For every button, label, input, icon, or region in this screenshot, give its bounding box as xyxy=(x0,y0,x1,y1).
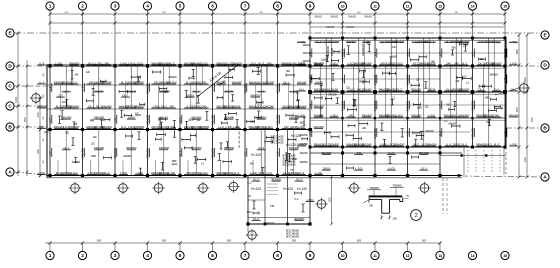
svg-text:240x500: 240x500 xyxy=(451,40,462,44)
svg-text:LL-3: LL-3 xyxy=(429,40,435,44)
svg-text:BLTC 240x300: BLTC 240x300 xyxy=(283,165,297,167)
svg-text:KL-2: KL-2 xyxy=(494,142,500,146)
secondary axis target at 233.5,186.5 xyxy=(227,180,240,193)
svg-text:240x300: 240x300 xyxy=(303,52,312,55)
svg-text:240: 240 xyxy=(267,61,272,65)
svg-text:1800: 1800 xyxy=(292,158,298,161)
svg-text:300x500: 300x500 xyxy=(61,80,72,84)
svg-text:240 240: 240 240 xyxy=(94,125,104,129)
svg-text:1800: 1800 xyxy=(91,155,97,158)
svg-text:300x500: 300x500 xyxy=(411,87,422,91)
svg-text:240x500: 240x500 xyxy=(340,48,344,59)
columns right block mid row xyxy=(308,90,507,94)
beam row y85 left block xyxy=(47,85,506,94)
svg-text:240x500: 240x500 xyxy=(191,61,202,65)
axis E bubble left y=33 xyxy=(6,29,14,37)
bottom grid bubble 5 xyxy=(176,243,184,260)
bottom grid bubble 10 xyxy=(338,243,346,260)
grid axis 9 bubble xyxy=(306,2,314,38)
secondary axis target at 36,98 xyxy=(30,92,43,105)
extension mid row xyxy=(310,163,440,165)
svg-text:2@18: 2@18 xyxy=(323,87,331,91)
svg-text:KL-2: KL-2 xyxy=(104,171,110,175)
svg-text:L-5(1): L-5(1) xyxy=(298,113,305,117)
svg-text:1800: 1800 xyxy=(172,160,178,163)
svg-text:KL-2: KL-2 xyxy=(253,178,259,182)
svg-text:2@18: 2@18 xyxy=(187,94,195,98)
svg-text:H=120: H=120 xyxy=(251,153,261,157)
svg-text:240x400: 240x400 xyxy=(405,100,409,111)
secondary axis target at 321.5,204 xyxy=(315,198,328,211)
svg-text:KL-2: KL-2 xyxy=(169,61,175,65)
svg-text:240x300: 240x300 xyxy=(300,143,309,146)
svg-text:L-1(2): L-1(2) xyxy=(396,61,403,65)
svg-text:2@18: 2@18 xyxy=(380,61,388,65)
secondary axis target at 158.5,188 xyxy=(152,182,165,195)
grid axis 2 bubble xyxy=(78,2,86,66)
detail section 2 T-beam xyxy=(363,195,403,213)
bottom grid bubble 9 xyxy=(306,243,314,260)
svg-text:2@18: 2@18 xyxy=(290,125,298,129)
svg-text:L-7: L-7 xyxy=(48,151,52,155)
svg-text:LL-1: LL-1 xyxy=(178,117,182,123)
svg-text:240 240: 240 240 xyxy=(94,89,104,93)
svg-text:240x300: 240x300 xyxy=(314,16,323,19)
svg-text:L-2: L-2 xyxy=(80,86,84,90)
svg-text:QL-1: QL-1 xyxy=(258,171,264,175)
svg-text:240: 240 xyxy=(479,40,484,44)
grid axis 4 bubble xyxy=(143,2,151,66)
svg-text:1800: 1800 xyxy=(417,106,423,109)
columns on axis D xyxy=(48,64,506,67)
svg-text:240: 240 xyxy=(104,61,109,65)
svg-text:L-5(1): L-5(1) xyxy=(510,61,517,65)
svg-text:240x300: 240x300 xyxy=(94,116,105,120)
axis C bubble left y=86 xyxy=(6,82,14,90)
bottom grid bubble 6 xyxy=(208,243,216,260)
bottom grid bubble 15 xyxy=(501,251,509,259)
svg-text:2@18: 2@18 xyxy=(330,87,338,91)
bottom dimension line xyxy=(45,241,442,245)
svg-text:KL-2: KL-2 xyxy=(316,40,322,44)
column line grid 15 xyxy=(504,38,506,147)
bottom grid bubble 14 xyxy=(468,251,476,259)
svg-text:700(300): 700(300) xyxy=(392,184,401,188)
svg-text:LL-3: LL-3 xyxy=(121,125,127,129)
svg-text:L-1(2): L-1(2) xyxy=(233,125,240,129)
svg-text:240x300: 240x300 xyxy=(346,26,355,29)
svg-text:240 240: 240 240 xyxy=(159,125,169,129)
svg-text:H=120: H=120 xyxy=(283,187,293,191)
svg-text:L-5(1): L-5(1) xyxy=(120,171,127,175)
svg-text:L-1(2): L-1(2) xyxy=(388,142,395,146)
grid axis 13 bubble xyxy=(436,2,444,38)
column line grid 11 xyxy=(374,38,376,176)
svg-text:L-5(1): L-5(1) xyxy=(298,125,305,129)
svg-text:LL-3: LL-3 xyxy=(226,61,232,65)
column line grid 10 xyxy=(342,38,344,176)
svg-text:KL-2: KL-2 xyxy=(396,87,402,91)
svg-text:L-5(1): L-5(1) xyxy=(290,61,297,65)
svg-text:L-7: L-7 xyxy=(503,131,507,135)
top dimension line 2 xyxy=(49,22,507,25)
svg-text:L-7: L-7 xyxy=(243,151,247,155)
svg-text:300x500: 300x500 xyxy=(484,113,495,117)
top dimension line 1 xyxy=(49,13,507,16)
column line grid 8 xyxy=(277,66,279,176)
svg-text:L-1(2): L-1(2) xyxy=(136,61,143,65)
svg-text:240x300: 240x300 xyxy=(300,152,309,155)
beam labels right block rows xyxy=(296,40,519,147)
svg-text:240 240: 240 240 xyxy=(224,171,234,175)
svg-text:300x500: 300x500 xyxy=(271,178,282,182)
left wall side dim texts xyxy=(43,72,45,163)
svg-text:240x400: 240x400 xyxy=(361,113,372,117)
svg-text:13: 13 xyxy=(438,254,442,258)
svg-text:240: 240 xyxy=(202,80,207,84)
svg-text:LL-3: LL-3 xyxy=(299,171,305,175)
svg-text:L-5(1): L-5(1) xyxy=(153,104,160,108)
svg-text:240x300: 240x300 xyxy=(123,155,132,158)
svg-text:BLTC 240x300: BLTC 240x300 xyxy=(283,162,297,164)
svg-text:QL-1: QL-1 xyxy=(122,94,128,98)
svg-text:300x500: 300x500 xyxy=(69,61,80,65)
svg-text:QL-1: QL-1 xyxy=(461,142,467,146)
svg-text:240x400: 240x400 xyxy=(94,146,105,150)
bottom grid bubble 11 xyxy=(371,243,379,260)
svg-text:240x300: 240x300 xyxy=(303,60,312,63)
svg-text:240x500: 240x500 xyxy=(354,142,365,146)
svg-text:2@18: 2@18 xyxy=(428,87,436,91)
svg-text:240x500: 240x500 xyxy=(313,113,324,117)
svg-text:LL-3: LL-3 xyxy=(39,80,45,84)
axis B bubble left y=127 xyxy=(6,123,14,131)
svg-text:L-5(1): L-5(1) xyxy=(510,142,517,146)
svg-text:1800: 1800 xyxy=(392,56,398,59)
svg-text:LL-3: LL-3 xyxy=(446,142,452,146)
svg-text:LL-3: LL-3 xyxy=(64,89,70,93)
svg-text:L-1(2): L-1(2) xyxy=(63,125,70,129)
svg-text:3600: 3600 xyxy=(454,12,458,14)
secondary beams left block upper xyxy=(61,66,294,109)
svg-text:240x400: 240x400 xyxy=(210,115,214,126)
column line grid 4 xyxy=(147,66,149,176)
secondary axis target at 354,188 xyxy=(348,182,361,195)
svg-text:240: 240 xyxy=(494,113,499,117)
svg-text:13: 13 xyxy=(438,5,442,9)
svg-text:240x300 240: 240x300 240 xyxy=(362,43,365,55)
svg-text:240x300: 240x300 xyxy=(145,83,149,94)
svg-text:240x300: 240x300 xyxy=(266,222,275,225)
svg-text:240: 240 xyxy=(284,125,289,129)
svg-text:240x300: 240x300 xyxy=(364,16,373,19)
secondary axis target at 203,188 xyxy=(197,182,210,195)
svg-text:QL-1: QL-1 xyxy=(421,167,427,171)
svg-text:240x300: 240x300 xyxy=(145,148,149,159)
micro text blocks near stairwell xyxy=(239,130,300,238)
column line grid 2 xyxy=(82,66,84,176)
svg-text:240x300: 240x300 xyxy=(340,100,344,111)
svg-text:BLTC 240x300: BLTC 240x300 xyxy=(286,231,300,233)
svg-text:240x400: 240x400 xyxy=(313,104,324,108)
columns on axis B xyxy=(48,128,311,131)
svg-text:2: 2 xyxy=(415,213,418,219)
building left edge wall xyxy=(46,64,48,178)
grid axis 8 bubble xyxy=(273,2,281,66)
secondary axis target at 123,188 xyxy=(117,182,130,195)
svg-text:240x500: 240x500 xyxy=(191,80,202,84)
secondary axis target at 524,88 xyxy=(518,82,531,95)
svg-text:12: 12 xyxy=(406,5,410,9)
axis C leader dashes xyxy=(15,86,48,106)
svg-text:L-1(2): L-1(2) xyxy=(201,171,208,175)
svg-text:2@14: 2@14 xyxy=(164,90,171,93)
svg-text:240x300: 240x300 xyxy=(331,47,334,56)
svg-text:BLTC 240x300: BLTC 240x300 xyxy=(286,237,300,239)
bottom grid bubble 13 xyxy=(436,243,444,260)
svg-text:L-5(1): L-5(1) xyxy=(128,125,135,129)
beam row axis C left block xyxy=(47,109,506,120)
column line grid 6 xyxy=(212,66,214,176)
svg-text:L-1(2): L-1(2) xyxy=(136,171,143,175)
svg-text:QL-1: QL-1 xyxy=(494,87,500,91)
grid axis 14 bubble xyxy=(468,2,476,38)
axis A bubble right xyxy=(541,173,549,181)
svg-text:3600: 3600 xyxy=(357,12,361,14)
svg-text:240x300: 240x300 xyxy=(330,16,339,19)
svg-text:240x300: 240x300 xyxy=(126,80,137,84)
column line grid 9 xyxy=(309,38,311,224)
svg-text:LL-3: LL-3 xyxy=(259,80,265,84)
svg-text:240x400: 240x400 xyxy=(373,128,377,139)
svg-text:240: 240 xyxy=(357,87,362,91)
diagonal leader right block xyxy=(495,88,519,95)
axis E bubble right xyxy=(541,31,549,39)
svg-text:L-7: L-7 xyxy=(470,52,474,56)
svg-text:240x500: 240x500 xyxy=(411,113,422,117)
stairwell protrusion outline xyxy=(246,130,332,226)
bottom detail marker xyxy=(247,226,249,233)
svg-text:240x500: 240x500 xyxy=(126,104,137,108)
svg-text:240 240: 240 240 xyxy=(224,89,234,93)
grid9 text ladder xyxy=(300,43,365,164)
svg-text:240x500: 240x500 xyxy=(113,148,117,159)
svg-text:240: 240 xyxy=(154,80,159,84)
grid axis 1 bubble xyxy=(46,2,54,66)
svg-text:240x300: 240x300 xyxy=(484,61,495,65)
svg-text:240x400: 240x400 xyxy=(275,115,279,126)
protrusion beam labels xyxy=(252,178,315,222)
svg-text:L-5(1): L-5(1) xyxy=(510,40,517,44)
svg-text:QL-1: QL-1 xyxy=(88,104,94,108)
svg-text:QL-1: QL-1 xyxy=(96,104,102,108)
svg-text:300x500: 300x500 xyxy=(191,104,202,108)
svg-text:L-7: L-7 xyxy=(308,131,312,135)
svg-text:L-5(1): L-5(1) xyxy=(428,113,435,117)
svg-text:14: 14 xyxy=(471,5,475,9)
svg-text:2@18: 2@18 xyxy=(233,104,241,108)
svg-text:240x300: 240x300 xyxy=(313,125,324,129)
svg-text:L-1(2): L-1(2) xyxy=(201,61,208,65)
axis A leader dashes xyxy=(15,172,541,177)
svg-text:L-5(1): L-5(1) xyxy=(380,142,387,146)
svg-text:QL-1: QL-1 xyxy=(283,80,289,84)
svg-text:240x300: 240x300 xyxy=(61,116,72,120)
bottom grid bubble 2 xyxy=(78,243,86,260)
svg-text:300x500: 300x500 xyxy=(224,146,235,150)
svg-text:3600: 3600 xyxy=(259,12,263,14)
svg-text:240x300: 240x300 xyxy=(348,16,357,19)
svg-text:KL-2: KL-2 xyxy=(253,217,259,221)
axis B leader dashes xyxy=(15,127,541,128)
svg-text:240x300: 240x300 xyxy=(386,87,397,91)
stair flight lines in protrusion xyxy=(267,184,279,194)
svg-text:240x500: 240x500 xyxy=(36,104,47,108)
svg-text:L-1(2): L-1(2) xyxy=(168,171,175,175)
column line grid 12 xyxy=(407,38,409,176)
svg-text:14: 14 xyxy=(471,254,475,258)
svg-text:L-5(1): L-5(1) xyxy=(120,61,127,65)
beam labels left block rows xyxy=(36,61,324,174)
svg-text:240 240: 240 240 xyxy=(216,80,226,84)
svg-text:240x300: 240x300 xyxy=(303,44,312,47)
svg-text:240x400: 240x400 xyxy=(386,113,397,117)
svg-text:11: 11 xyxy=(373,254,377,258)
svg-text:L-2: L-2 xyxy=(275,151,279,155)
beam row axis B left block xyxy=(47,129,310,131)
svg-text:LL-3: LL-3 xyxy=(218,125,224,129)
svg-text:L-5(1): L-5(1) xyxy=(95,61,102,65)
secondary axis target at 252,235 xyxy=(246,229,259,242)
svg-text:LL-1: LL-1 xyxy=(438,130,442,136)
svg-text:300x500: 300x500 xyxy=(159,61,170,65)
svg-text:L-1(2): L-1(2) xyxy=(388,167,395,171)
column line grid 14 xyxy=(472,38,474,147)
svg-text:KL-2: KL-2 xyxy=(88,61,94,65)
svg-text:300x500: 300x500 xyxy=(61,171,72,175)
svg-text:240: 240 xyxy=(39,125,44,129)
svg-text:240: 240 xyxy=(446,61,451,65)
svg-text:240x300: 240x300 xyxy=(326,26,335,29)
column line grid 3 xyxy=(114,66,116,176)
svg-text:KL-2: KL-2 xyxy=(193,89,199,93)
svg-text:240x500: 240x500 xyxy=(256,125,267,129)
building right edge wall xyxy=(505,38,507,174)
grid axis 12 bubble xyxy=(403,2,411,38)
column line grid 7 xyxy=(244,66,246,176)
svg-text:240 240: 240 240 xyxy=(159,80,169,84)
svg-text:240x300: 240x300 xyxy=(191,125,202,129)
svg-text:240x300: 240x300 xyxy=(373,74,377,85)
svg-text:L-5(1): L-5(1) xyxy=(396,113,403,117)
svg-text:240x300: 240x300 xyxy=(508,113,519,117)
right vertical dimension lines xyxy=(516,34,534,179)
secondary axis target at 75,188 xyxy=(69,182,82,195)
grid axis 10 bubble xyxy=(338,2,346,38)
bottom grid bubble 12 xyxy=(403,243,411,260)
svg-text:240x500: 240x500 xyxy=(145,115,149,126)
svg-text:BLTC 240x300: BLTC 240x300 xyxy=(286,234,300,236)
top small schedule texts xyxy=(314,16,373,30)
svg-text:10: 10 xyxy=(341,5,345,9)
svg-text:12: 12 xyxy=(406,254,410,258)
beam row axis D (full width) xyxy=(47,64,506,68)
svg-text:LL-3: LL-3 xyxy=(266,171,272,175)
right block thin sub-rows xyxy=(310,53,506,132)
grid axis 7 bubble xyxy=(241,2,249,66)
svg-text:1500: 1500 xyxy=(247,211,253,214)
svg-text:LL-3: LL-3 xyxy=(324,40,330,44)
bottom grid bubble 4 xyxy=(143,243,151,260)
stair flight dashes xyxy=(464,148,504,175)
svg-text:L-5(1): L-5(1) xyxy=(331,113,338,117)
axis B bubble right xyxy=(541,124,549,132)
beam labels verticals xyxy=(48,48,507,158)
svg-text:L-7: L-7 xyxy=(438,104,442,108)
svg-text:10: 10 xyxy=(341,254,345,258)
detail leaders and dims xyxy=(367,184,409,221)
svg-text:L-1(2): L-1(2) xyxy=(55,61,62,65)
svg-text:240x500: 240x500 xyxy=(419,61,430,65)
svg-text:2@18: 2@18 xyxy=(453,142,461,146)
svg-text:H=120: H=120 xyxy=(251,187,261,191)
svg-text:300x500: 300x500 xyxy=(224,104,235,108)
svg-text:LL-3: LL-3 xyxy=(71,80,77,84)
svg-text:L-2: L-2 xyxy=(48,86,52,90)
svg-text:L-5(1): L-5(1) xyxy=(307,198,314,202)
svg-text:240x400: 240x400 xyxy=(94,171,105,175)
svg-text:2@14: 2@14 xyxy=(188,119,195,122)
bottom grid bubble 3 xyxy=(111,243,119,260)
svg-text:KL-2: KL-2 xyxy=(453,113,459,117)
svg-text:QL-1: QL-1 xyxy=(478,87,484,91)
grid axis 15 bubble xyxy=(501,2,509,38)
svg-text:240x300: 240x300 xyxy=(250,94,261,98)
grid axis 11 bubble xyxy=(371,2,379,38)
svg-text:L-5(1): L-5(1) xyxy=(128,61,135,65)
svg-text:QL-1: QL-1 xyxy=(299,87,305,91)
svg-text:L-1(2): L-1(2) xyxy=(71,171,78,175)
svg-text:240x300: 240x300 xyxy=(405,74,409,85)
svg-text:2@18: 2@18 xyxy=(323,167,331,171)
svg-text:L-5(1): L-5(1) xyxy=(493,40,500,44)
grid axis 5 bubble xyxy=(176,2,184,66)
svg-text:3600: 3600 xyxy=(162,12,166,14)
svg-text:300x500: 300x500 xyxy=(313,61,324,65)
svg-text:300x500: 300x500 xyxy=(294,217,305,221)
svg-text:L-2: L-2 xyxy=(308,104,312,108)
svg-text:H=120: H=120 xyxy=(297,187,307,191)
svg-text:QL-1: QL-1 xyxy=(63,146,69,150)
svg-text:L-2: L-2 xyxy=(373,52,377,56)
svg-text:L-7: L-7 xyxy=(340,78,344,82)
column line grid 13 xyxy=(439,38,441,176)
svg-text:240x300: 240x300 xyxy=(275,83,279,94)
svg-text:QL-1: QL-1 xyxy=(461,61,467,65)
right block top edge xyxy=(310,38,506,40)
svg-text:240: 240 xyxy=(454,61,459,65)
svg-text:240x400: 240x400 xyxy=(80,148,84,159)
axis E dash-dot line xyxy=(15,32,541,34)
svg-text:L-2: L-2 xyxy=(405,52,409,56)
svg-text:LL-3: LL-3 xyxy=(234,171,240,175)
svg-text:240x400: 240x400 xyxy=(470,128,474,139)
columns right block top xyxy=(309,37,507,40)
svg-text:14400: 14400 xyxy=(15,96,18,103)
svg-text:KL-2: KL-2 xyxy=(258,146,264,150)
left vertical dimension lines xyxy=(15,32,49,178)
beam row axis A bottom edge xyxy=(47,176,462,178)
